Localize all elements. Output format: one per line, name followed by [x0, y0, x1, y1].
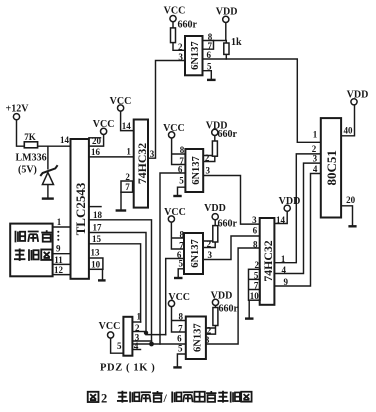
- wire 6N137 U4 pin 6 down to PDZ net row: [160, 173, 185, 344]
- chip U3 6N137 (top): [185, 36, 203, 75]
- ground for 80C51 pin 20: [348, 225, 356, 227]
- 74HC32 U7 pins 2,5,7,10 loop box: [249, 269, 261, 300]
- 74HC32 U2 pins 2,7 loop box: [121, 181, 133, 192]
- wire 74HC32 U2 pin 3 to 6N137 U3 pin 3: [148, 61, 185, 159]
- chip U6 6N137 (bottom): [186, 317, 206, 360]
- svg-text:5: 5: [178, 344, 183, 354]
- svg-text:+12V: +12V: [6, 104, 30, 115]
- svg-text:3: 3: [178, 52, 183, 62]
- svg-text:17: 17: [93, 223, 103, 233]
- wire LM336 branch down from node: [47, 146, 49, 169]
- wire VDD through 660r to 6N137 U4 pin 2: [203, 136, 215, 162]
- wire VDD to 74HC32 U7 pin 14: [274, 211, 287, 223]
- terminal VDD at 80C51: [351, 99, 357, 105]
- wire 6N137 U4 pin 5 to ground: [178, 187, 186, 196]
- svg-text:5: 5: [117, 341, 122, 351]
- svg-text:16: 16: [91, 147, 101, 157]
- components layer: [10, 16, 357, 368]
- svg-text:6: 6: [178, 164, 183, 174]
- svg-text:80C51: 80C51: [324, 150, 339, 185]
- wire 80C51 pin 4 to 74HC32 U7 pin 9: [274, 174, 320, 287]
- terminal VCC at 6N137 U3: [170, 16, 176, 22]
- resistor R3 1k: [224, 43, 229, 54]
- svg-text:2: 2: [207, 239, 212, 249]
- wire VCC to 6N137 U5 pins 8,7: [171, 222, 184, 249]
- svg-text:1: 1: [313, 129, 318, 139]
- svg-text:3: 3: [313, 154, 318, 164]
- svg-text:3: 3: [205, 166, 210, 176]
- svg-text:4: 4: [134, 341, 139, 351]
- svg-text:VDD: VDD: [204, 203, 226, 214]
- svg-text:2: 2: [205, 153, 210, 163]
- svg-text:1k: 1k: [231, 37, 242, 48]
- ground for 74HC32 U7: [245, 317, 254, 319]
- ground for 6N137 U5 pin 5: [174, 277, 183, 279]
- svg-text:VCC: VCC: [93, 119, 115, 130]
- svg-text:2: 2: [255, 260, 260, 270]
- svg-text:VCC: VCC: [164, 207, 186, 218]
- terminal +12V: [13, 114, 19, 120]
- chip U2 74HC32 (left): [134, 120, 148, 208]
- wire analog input box to TLC2543 pin 12: [53, 274, 71, 276]
- svg-text:10: 10: [91, 260, 101, 270]
- terminal VCC at 6N137 U6: [168, 300, 174, 306]
- svg-text:2: 2: [207, 325, 212, 335]
- resistor R6 660r (U6): [213, 308, 218, 326]
- terminal VCC at PDZ: [108, 332, 114, 338]
- svg-text:7: 7: [125, 182, 130, 192]
- wire 6N137 U5 pin 5 to ground: [178, 269, 184, 278]
- svg-text:8: 8: [253, 239, 258, 249]
- svg-text:18: 18: [93, 210, 103, 220]
- svg-text:40: 40: [344, 126, 354, 136]
- svg-text:660r: 660r: [219, 304, 239, 315]
- svg-text:2: 2: [101, 392, 107, 406]
- wire 74HC32 U2 pins 2,7 to ground: [120, 192, 122, 210]
- wire PDZ pin 4 tick: [132, 349, 140, 351]
- svg-text:14: 14: [60, 135, 70, 145]
- wire analog input box to TLC2543 pin 11: [53, 263, 71, 265]
- wire analog input box to TLC2543 pin 9: [53, 253, 71, 255]
- svg-text:2: 2: [178, 42, 183, 52]
- chip U9 PDZ: [123, 317, 132, 356]
- caption figure 2 title: [88, 391, 252, 406]
- svg-text:3: 3: [208, 250, 213, 260]
- svg-text:VCC: VCC: [168, 292, 190, 303]
- ground for 6N137 U4 pin 5: [173, 195, 181, 197]
- terminal VCC at 74HC32 U2: [118, 105, 124, 111]
- node dots on TLC2543 pins 1..9: [57, 231, 59, 241]
- svg-text:12: 12: [54, 265, 64, 275]
- wire 6N137 U5 pin 3 to 74HC32 U7 pin 6: [203, 236, 260, 260]
- junction node B (pin 18 drop on U6 pin 6 row): [149, 342, 154, 347]
- svg-text:20: 20: [346, 195, 356, 205]
- svg-text:2: 2: [125, 172, 130, 182]
- svg-text:VDD: VDD: [211, 290, 233, 301]
- wire PDZ pin 1 tick: [132, 321, 140, 323]
- svg-text:9: 9: [56, 244, 61, 254]
- wire 80C51 pin 3 to 74HC32 U7 pin 4: [274, 163, 320, 273]
- svg-text:11: 11: [54, 255, 63, 265]
- svg-text:7: 7: [179, 240, 184, 250]
- wire 6N137 U3 pin 6 to 80C51 pin 1: [203, 59, 321, 142]
- svg-text:6N137: 6N137: [192, 323, 203, 352]
- svg-text:TLC2543: TLC2543: [73, 182, 88, 235]
- wire VCC through 660r to 6N137 U3 pin 2: [173, 22, 185, 51]
- svg-text:2: 2: [135, 323, 140, 333]
- wire 74HC32 U7 pin 8 to 6N137 U6 pin 3: [206, 248, 260, 344]
- svg-text:3: 3: [150, 149, 155, 159]
- wire VCC to PDZ pin 5: [111, 338, 124, 353]
- wire VCC to TLC2543 pin 20: [89, 135, 104, 147]
- terminal VDD at 6N137 U3: [223, 16, 229, 22]
- svg-text:6N137: 6N137: [190, 41, 201, 70]
- LM336 D1 zener cathode bar: [40, 165, 57, 176]
- ground for 6N137 U6 pin 5: [173, 366, 181, 368]
- svg-text:660r: 660r: [218, 129, 238, 140]
- svg-text:6: 6: [207, 50, 212, 60]
- resistor R4 660r (U4): [212, 141, 217, 156]
- analog signal input box: [10, 224, 52, 277]
- svg-text:/: /: [163, 391, 168, 405]
- svg-text:1: 1: [57, 217, 62, 227]
- chip U4 6N137: [185, 149, 203, 192]
- terminal VCC at 6N137 U4: [169, 132, 175, 138]
- svg-text:7: 7: [178, 323, 183, 333]
- svg-text:5: 5: [254, 270, 259, 280]
- wire analog input box to TLC2543 pin 1: [53, 226, 71, 228]
- wires layer: [17, 22, 355, 367]
- wire TLC2543 pin 10 to ground: [102, 269, 104, 280]
- chip U8 80C51: [321, 118, 341, 217]
- svg-text:VDD: VDD: [216, 7, 238, 18]
- svg-text:(5V): (5V): [18, 165, 37, 176]
- wire VDD through 660r to 6N137 U5 pin 2: [203, 220, 215, 248]
- svg-text:8: 8: [179, 230, 184, 240]
- svg-text:VDD: VDD: [279, 196, 301, 207]
- wire 6N137 U6 pin 5 to ground: [177, 354, 185, 367]
- wire 6N137 U6 pin 6 row to PDZ pin 3: [132, 343, 185, 345]
- svg-text:13: 13: [91, 247, 101, 257]
- wire 74HC32 U7 pins 2,5,7,10 to ground: [248, 300, 250, 318]
- wire VDD through 660r to 6N137 U6 pin 2: [206, 306, 216, 335]
- svg-text:LM336: LM336: [16, 153, 47, 164]
- LM336 D1 triangle: [42, 172, 53, 184]
- svg-text:6: 6: [177, 333, 182, 343]
- terminal VDD at 6N137 U4: [212, 129, 218, 135]
- svg-text:4: 4: [313, 164, 318, 174]
- pin tick above TLC2543 pin 20: [89, 137, 101, 139]
- svg-text:1: 1: [126, 147, 131, 157]
- svg-text:6: 6: [253, 226, 258, 236]
- svg-text:9: 9: [283, 277, 288, 287]
- wire 80C51 pin 2 to 74HC32 U7 pin 1: [274, 154, 320, 263]
- svg-text:7: 7: [254, 280, 259, 290]
- svg-text:VCC: VCC: [110, 96, 132, 107]
- ground for TLC2543 pin 10: [98, 279, 106, 281]
- wire VCC to 6N137 U4 pins 8,7: [172, 138, 186, 165]
- svg-text:14: 14: [122, 121, 132, 131]
- wire VDD to 6N137 U3 pin 8: [203, 23, 226, 41]
- svg-text:VCC: VCC: [99, 321, 121, 332]
- pin tick above TLC2543 pin 18: [89, 206, 101, 208]
- terminal VDD at 6N137 U5: [212, 214, 218, 220]
- terminal VDD at 6N137 U6: [212, 299, 218, 305]
- terminal VDD at 74HC32 U7: [284, 205, 290, 211]
- svg-text:4: 4: [282, 265, 287, 275]
- wire LM336 anode to ground: [47, 185, 49, 199]
- wire 6N137 U4 pin 3 to 74HC32 U7 pin 3: [203, 176, 260, 225]
- junction node A (pin 17 drop to PDZ pin 2): [144, 331, 148, 335]
- ground for LM336: [42, 197, 54, 199]
- svg-text:6N137: 6N137: [191, 156, 202, 185]
- svg-text:VCC: VCC: [164, 6, 186, 17]
- svg-text:660r: 660r: [178, 20, 198, 31]
- svg-text:74HC32: 74HC32: [261, 240, 275, 281]
- wire VCC to 6N137 U6 pins 8,7: [172, 307, 186, 332]
- resistor R2 660r (top): [171, 28, 176, 43]
- wire VCC to 74HC32 U2 pin 14: [121, 111, 134, 131]
- chip U1 TLC2543: [71, 139, 89, 279]
- chip U7 74HC32 (right): [260, 218, 275, 305]
- wire TLC2543 pin 18 to node row: [89, 220, 152, 344]
- wire TLC2543 pin 17 to PDZ pin 2: [89, 233, 166, 335]
- svg-text:1: 1: [136, 312, 141, 322]
- resistor R1 7K: [24, 142, 37, 148]
- wire 80C51 pin 20 to ground: [341, 206, 352, 226]
- svg-text:10: 10: [250, 291, 260, 301]
- terminal VCC at TLC2543 pin 20: [101, 128, 107, 134]
- resistor R5 660r (U5): [213, 226, 218, 242]
- wire PDZ pin 2 tick: [132, 331, 146, 333]
- wire +12V to TLC2543 pin 14 (through 7K): [17, 120, 71, 146]
- svg-text:VDD: VDD: [347, 90, 369, 101]
- analog signal input text line 1: [15, 230, 52, 242]
- ground for 74HC32 U2 pins 2,7: [116, 209, 127, 211]
- svg-text:20: 20: [92, 136, 102, 146]
- svg-text:660r: 660r: [218, 219, 238, 230]
- terminal VCC at 6N137 U5: [168, 216, 174, 222]
- wire 80C51 pin 40 to VDD: [341, 105, 354, 136]
- wire 6N137 U3 pin 7 tie to pin 8: [203, 41, 214, 50]
- svg-text:6N137: 6N137: [190, 239, 201, 268]
- svg-text:7K: 7K: [24, 132, 36, 142]
- ground for 6N137 U3 pin 5: [207, 79, 216, 81]
- svg-text:5: 5: [178, 259, 183, 269]
- wire 1k from VDD node to 6N137 U3 pin 6 row: [225, 41, 227, 60]
- analog signal input text line 2: [14, 249, 52, 261]
- wire 6N137 U5 pin 6 down to node row: [166, 259, 184, 335]
- svg-text:3: 3: [252, 215, 257, 225]
- svg-text:14: 14: [276, 215, 286, 225]
- svg-text:PDZ ( 1K ): PDZ ( 1K ): [100, 363, 155, 374]
- svg-text:74HC32: 74HC32: [135, 143, 149, 184]
- svg-text:1: 1: [281, 254, 286, 264]
- svg-text:5: 5: [207, 62, 212, 72]
- wire PDZ pin 3 tick: [132, 340, 151, 342]
- svg-text:15: 15: [92, 234, 102, 244]
- svg-text:8: 8: [179, 312, 184, 322]
- chip U5 6N137: [184, 233, 203, 274]
- wire TLC2543 pin 15 to PDZ pin 1: [89, 244, 141, 322]
- wire TLC2543 pin 16 to 74HC32 U2 pin 1: [89, 156, 134, 158]
- TLC2543 pin 10 loop box: [89, 258, 103, 269]
- svg-text:8: 8: [180, 145, 185, 155]
- svg-text:3: 3: [205, 335, 210, 345]
- svg-text:VCC: VCC: [163, 123, 185, 134]
- wire 6N137 U3 pin 5 to ground: [203, 71, 212, 80]
- svg-text:5: 5: [179, 175, 184, 185]
